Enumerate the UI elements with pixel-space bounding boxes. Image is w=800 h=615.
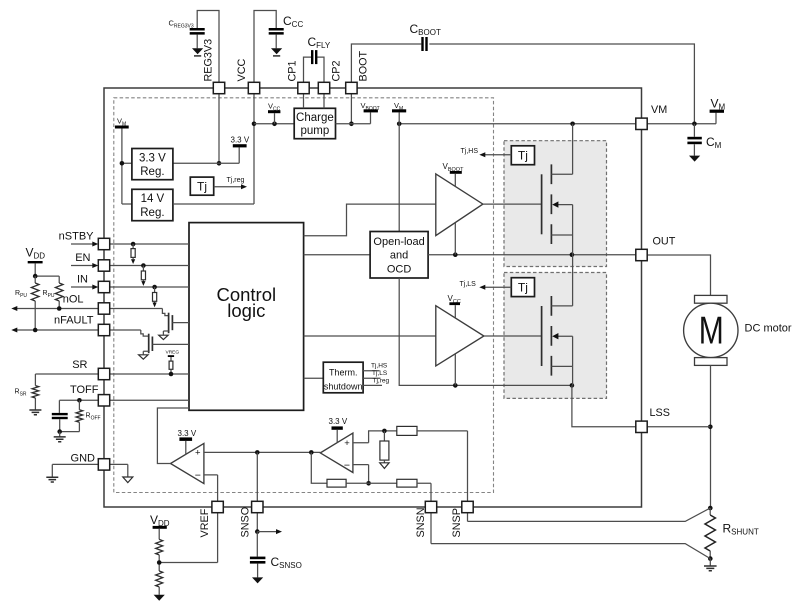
transistor Q1 nOL open-drain [168, 313, 170, 334]
wire open-load block to OUT node [428, 254, 636, 256]
resistor RV1 upper [156, 539, 163, 555]
junction VM-HS drain [570, 122, 575, 127]
signal arrow Tj,HS out [485, 154, 512, 156]
pin SNSP [462, 501, 473, 512]
motor terminal top [695, 295, 728, 303]
block Tj sensor low-side [511, 278, 534, 297]
svg-text:VCC: VCC [236, 59, 248, 82]
supply flag VCC internal [274, 113, 276, 124]
wire motor to shunt node [710, 365, 712, 508]
svg-text:SNSN: SNSN [415, 508, 427, 538]
wire VREF pin to divider [159, 513, 217, 563]
junction SNSO sense [255, 450, 260, 455]
junction diff output feedback [309, 450, 314, 455]
junction BOOT node [349, 122, 354, 127]
block thermal shutdown [323, 362, 363, 393]
junction shunt bottom [708, 556, 713, 561]
svg-text:EN: EN [75, 252, 90, 264]
op-amp U4 difference amplifier [320, 433, 353, 472]
svg-text:Tj,reg: Tj,reg [227, 177, 245, 184]
svg-text:3.3 V: 3.3 V [231, 136, 250, 145]
svg-text:Tj: Tj [197, 180, 207, 194]
ground below divider [380, 463, 389, 469]
wire OUT pin to motor [647, 255, 710, 295]
op-amp U3 buffer [171, 443, 204, 483]
svg-text:DC motor: DC motor [745, 322, 792, 334]
pin nFAULT wire out [16, 329, 98, 331]
transistor M1 high-side MOSFET [541, 174, 543, 234]
capacitor COFF [58, 400, 60, 413]
svg-text:BOOT: BOOT [358, 51, 370, 82]
DC motor M1 [684, 303, 738, 357]
wire VCC pin stem down [253, 94, 255, 205]
signal arrow Tj,reg out [214, 186, 242, 188]
junction OUT-MOSFET node [570, 252, 575, 257]
pulldown resistor on EN [141, 263, 146, 268]
wire VCC to charge pump [254, 123, 294, 125]
signal Tj,reg into thermal shutdown [363, 384, 382, 386]
resistor RV2 lower [156, 571, 163, 587]
pin GND [98, 459, 109, 470]
wire kelvin SNSP tap [468, 508, 711, 521]
block Tj sensor regulator [190, 177, 213, 195]
wire diff + input from SNSP [353, 431, 397, 443]
wire 14V reg to VCC stem [173, 203, 254, 205]
wire LS gate [484, 335, 542, 337]
svg-text:GND: GND [71, 453, 96, 465]
resistor R4 to SNSN [369, 482, 397, 484]
junction TOFF ground node [57, 429, 62, 434]
supply flag 3.3V internal [233, 144, 247, 147]
svg-text:Tj,LS: Tj,LS [372, 370, 388, 377]
capacitor CREG3V3 [190, 28, 205, 31]
svg-text:nFAULT: nFAULT [54, 315, 94, 327]
gate driver U2 low-side [436, 306, 484, 366]
gate driver U1 high-side [436, 174, 483, 236]
svg-text:CP2: CP2 [331, 60, 343, 81]
pin nOL [98, 303, 109, 314]
inner dashed boundary box [114, 98, 494, 493]
svg-text:3.3 V: 3.3 V [329, 417, 348, 426]
signal Tj,LS into thermal shutdown [363, 377, 380, 379]
svg-text:SNSO: SNSO [240, 507, 252, 538]
resistor RPU right [58, 276, 60, 283]
pin IN wires [71, 286, 189, 288]
pin SR wires [35, 373, 189, 375]
wire control logic to thermal shutdown [304, 377, 324, 379]
junction LS driver return [453, 383, 458, 388]
block control logic [189, 223, 304, 411]
signal arrow SNSO out [257, 531, 276, 533]
pin GND wires [52, 463, 128, 465]
wire control logic to open-load block [304, 254, 371, 256]
ground GND external [51, 464, 53, 477]
ground below CSNSO [252, 577, 263, 583]
wire HS gate [483, 203, 542, 205]
svg-text:+: + [344, 438, 350, 449]
ground below CREG3V3 [192, 48, 203, 54]
ground below CCC [271, 48, 282, 54]
wire HS driver return [454, 223, 456, 255]
svg-text:3.3 V: 3.3 V [178, 429, 197, 438]
svg-text:Tj: Tj [518, 281, 528, 295]
wire VCC pin to CCC [254, 11, 276, 83]
svg-text:Tj,LS: Tj,LS [460, 281, 477, 288]
supply flag VM internal [398, 112, 400, 123]
ground below TOFF network [59, 432, 61, 437]
junction VREG on SR [169, 372, 174, 377]
wire CBOOT to VM node [429, 44, 694, 124]
ground below CM [689, 156, 700, 162]
wire BOOT pin stem down [350, 94, 352, 124]
svg-text:REG3V3: REG3V3 [203, 39, 215, 82]
wire REG3V3 pin stem down [218, 94, 220, 164]
supply flag VBOOT internal [364, 109, 378, 112]
capacitor CM [693, 124, 695, 137]
wire VM to open-load block [398, 124, 400, 232]
pin SR [98, 368, 109, 379]
svg-text:Tj: Tj [518, 149, 528, 163]
pin nOL wire out [16, 308, 98, 310]
svg-text:shutdown: shutdown [324, 382, 363, 392]
wire REG3V3 pin to CREG3V3 [197, 11, 219, 83]
junction TOFF node [77, 398, 82, 403]
svg-text:LSS: LSS [650, 407, 670, 419]
signal arrow Tj,LS out [485, 286, 512, 288]
wire CP1 stem down [303, 94, 305, 109]
svg-text:nSTBY: nSTBY [59, 231, 95, 243]
pin VM [636, 118, 647, 129]
ground below Q1 [159, 335, 168, 339]
transistor M2 low-side MOSFET [541, 306, 543, 366]
resistor R3 feedback [311, 452, 327, 483]
block 3.3V regulator [132, 149, 173, 180]
junction HS driver return [453, 252, 458, 257]
resistor RSR [34, 374, 36, 386]
pin EN [98, 260, 109, 271]
svg-text:Tj,HS: Tj,HS [371, 363, 388, 370]
junction VM flag tee [397, 122, 402, 127]
svg-text:VREG: VREG [166, 349, 180, 355]
junction REG3V3 node [217, 161, 222, 166]
junction LSS-motor [708, 425, 713, 430]
wire LSS pin to motor branch [647, 426, 710, 428]
svg-text:−: − [195, 469, 201, 481]
junction RPU right on nOL [57, 306, 62, 311]
capacitor CBOOT [421, 37, 423, 51]
svg-text:logic: logic [227, 300, 265, 321]
junction VM-CM [692, 122, 697, 127]
svg-text:VREF: VREF [199, 508, 211, 537]
junction VCC stem [252, 122, 257, 127]
svg-text:SNSP: SNSP [451, 508, 463, 537]
svg-text:Charge: Charge [296, 112, 334, 124]
resistor RPU left [34, 276, 36, 283]
wire SNSO net [256, 452, 258, 531]
transistor Q2 nFAULT open-drain [148, 334, 150, 354]
svg-text:3.3 V: 3.3 V [139, 152, 166, 164]
wire buffer output to control logic [157, 408, 189, 464]
wire CP2 pin to CFLY [317, 57, 324, 82]
wire BOOT pin to CBOOT [351, 44, 421, 83]
svg-text:TOFF: TOFF [70, 384, 99, 396]
junction VM regs [120, 161, 125, 166]
pin nSTBY [98, 238, 109, 249]
block 14V regulator [132, 189, 173, 220]
block open-load and OCD [370, 232, 428, 279]
pin nFAULT [98, 324, 109, 335]
ground below Q2 [139, 355, 148, 359]
wire nFAULT to transistor Q2 [110, 330, 149, 336]
wire kelvin SNSN tap [431, 513, 710, 559]
capacitor CSNSO [256, 532, 258, 557]
pin BOOT [346, 82, 357, 93]
junction shunt top [708, 506, 713, 511]
resistor RSHUNT [709, 508, 711, 515]
ground below RSHUNT [709, 559, 711, 566]
svg-text:CP1: CP1 [287, 60, 299, 81]
capacitor CFLY [311, 50, 313, 64]
wire VM rail [399, 113, 716, 124]
svg-text:pump: pump [301, 125, 330, 137]
wire LS driver return [454, 354, 456, 386]
ground below VREF divider [154, 595, 165, 601]
pin IN [98, 281, 109, 292]
low-side MOSFET shaded region [504, 273, 607, 399]
svg-text:+: + [195, 448, 201, 459]
junction VREF divider [157, 560, 162, 565]
high-side MOSFET shaded region [504, 141, 607, 267]
pin OUT [636, 249, 647, 260]
pin CP1 [298, 82, 309, 93]
capacitor CCC [269, 28, 284, 31]
resistor R1 to SNSP [397, 426, 417, 435]
svg-text:Reg.: Reg. [140, 207, 164, 219]
junction LS source node [570, 383, 575, 388]
wire buffer + input line [204, 451, 320, 453]
svg-text:OCD: OCD [387, 263, 412, 275]
wire control logic to HS driver [304, 204, 436, 236]
junction RPU left on nFAULT [33, 328, 38, 333]
pin TOFF [98, 395, 109, 406]
svg-text:Open-load: Open-load [373, 236, 424, 248]
wire 3.3V reg output [173, 147, 239, 163]
resistor ROFF [78, 400, 80, 410]
svg-text:IN: IN [77, 274, 88, 286]
svg-text:M: M [699, 310, 724, 352]
block Tj sensor high-side [511, 146, 534, 165]
wire control logic to LS driver [304, 335, 436, 337]
wire CP1 pin to CFLY [304, 57, 312, 82]
pin REG3V3 [213, 82, 224, 93]
wire LS source to LSS pin [572, 385, 636, 426]
svg-text:Reg.: Reg. [140, 166, 164, 178]
svg-text:14 V: 14 V [141, 193, 165, 205]
svg-text:Tj,reg: Tj,reg [373, 378, 390, 385]
svg-text:and: and [390, 250, 408, 262]
pulldown resistor on IN [152, 285, 157, 290]
pin nSTBY wires [71, 243, 189, 245]
pin TOFF wires [59, 399, 189, 401]
svg-text:Tj,HS: Tj,HS [461, 148, 479, 155]
svg-text:OUT: OUT [653, 236, 676, 248]
supply flag VM external [710, 110, 724, 113]
IC outer boundary box [104, 88, 642, 507]
junction VCC flag [272, 122, 277, 127]
svg-text:−: − [344, 460, 350, 472]
ground GND internal arrow [127, 464, 129, 477]
junction divider node [382, 429, 387, 434]
signal Tj,HS into thermal shutdown [363, 370, 379, 372]
block charge pump [294, 108, 335, 138]
wire nOL to transistor Q1 [110, 309, 169, 316]
svg-text:nOL: nOL [63, 294, 84, 306]
ground below RSR [29, 410, 41, 415]
pin SNSO [252, 501, 263, 512]
pulldown resistor on nSTBY [131, 242, 136, 247]
motor terminal bottom [695, 358, 728, 366]
pin VCC [248, 82, 259, 93]
wire charge pump to VBOOT flag [336, 112, 371, 123]
wire diff - input [353, 465, 369, 484]
pin EN wires [71, 265, 189, 267]
pin LSS [636, 421, 647, 432]
wire OCD low-side sense [399, 278, 572, 385]
resistor R2 divider [383, 431, 385, 441]
resistor VREG pullup [169, 361, 173, 369]
pin SNSN [425, 501, 436, 512]
svg-text:Therm.: Therm. [329, 368, 358, 378]
pin VREF [212, 501, 223, 512]
wire buffer - to VREF [204, 475, 218, 501]
pin CP2 [318, 82, 329, 93]
wire CP2 stem down [323, 94, 325, 109]
junction diff - node [366, 481, 371, 486]
junction SNSO output [255, 529, 260, 534]
svg-text:SR: SR [72, 359, 87, 371]
svg-text:VM: VM [651, 104, 667, 116]
